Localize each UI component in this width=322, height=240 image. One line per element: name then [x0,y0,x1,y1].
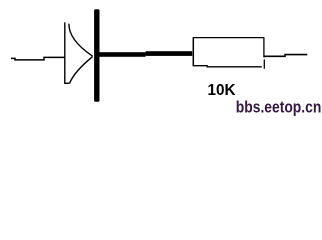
wire left input segment [11,57,65,60]
wire thick segment A (bar to step) [99,52,146,57]
diode D1 lower slant edge [70,57,93,84]
cathode bar (thick vertical) [94,9,99,102]
wire thick segment B (step to resistor) [146,51,193,56]
diode D1 triangle base [64,22,66,83]
svg-text:10K: 10K [208,82,236,99]
resistor R1 bottom edge [193,66,262,67]
resistor R1 right edge upper [263,37,265,57]
resistor R1 right edge lower tick [263,59,265,68]
svg-text:bbs.eetop.cn: bbs.eetop.cn [236,98,321,116]
diode D1 bottom foot wire [64,82,69,84]
resistor R1 left edge [192,37,194,65]
diode D1 upper slant edge [69,24,93,57]
resistor R1 top edge [193,37,264,39]
wire right output segment [264,55,307,57]
hand-drawn diode + resistor schematic [0,0,322,119]
